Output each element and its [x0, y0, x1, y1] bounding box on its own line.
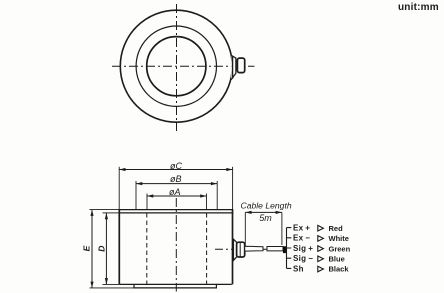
- svg-text:Cable Length: Cable Length: [241, 201, 292, 211]
- svg-text:øC: øC: [170, 161, 182, 171]
- svg-text:Green: Green: [329, 244, 351, 253]
- triangle Blue: [318, 256, 324, 262]
- dim øB line: [136, 182, 217, 185]
- dim E extension bottom: [90, 287, 135, 289]
- front connector nut: [237, 242, 245, 257]
- middle circle: [136, 26, 216, 106]
- cable length dim line: [245, 211, 282, 214]
- front view vertical centerline: [175, 198, 177, 292]
- front connector flange: [233, 239, 236, 260]
- triangle Green: [318, 246, 324, 252]
- svg-text:Sig −: Sig −: [293, 254, 313, 263]
- dim øA line: [147, 194, 207, 197]
- svg-text:unit:mm: unit:mm: [398, 2, 439, 13]
- svg-text:E: E: [81, 245, 91, 251]
- hidden edge left (dashed): [146, 213, 148, 284]
- dim øA extension lines: [147, 194, 207, 210]
- dim E line: [90, 210, 93, 288]
- front connector nut inner line: [239, 243, 241, 257]
- top view connector nut: [237, 58, 244, 73]
- dim øB extension lines: [136, 181, 217, 210]
- triangle White: [318, 236, 324, 242]
- dim D extension top: [103, 212, 119, 214]
- svg-text:øB: øB: [170, 174, 182, 184]
- svg-text:Blue: Blue: [329, 255, 345, 264]
- triangle Black: [318, 266, 324, 272]
- top view vertical centerline: [176, 4, 178, 131]
- body bottom line: [119, 283, 231, 285]
- svg-text:White: White: [329, 234, 349, 243]
- triangle Red: [318, 225, 324, 231]
- dim øC line: [119, 168, 232, 171]
- front view connector centerline: [215, 248, 288, 250]
- svg-text:D: D: [96, 246, 106, 252]
- svg-text:Ex +: Ex +: [293, 224, 310, 233]
- bottom foot step: [134, 284, 216, 288]
- svg-text:Ex −: Ex −: [293, 234, 310, 243]
- top view connector flange: [231, 56, 236, 80]
- dim D extension bottom: [103, 283, 120, 285]
- dim øC extension lines: [119, 167, 232, 210]
- svg-text:Red: Red: [329, 224, 344, 233]
- svg-text:5m: 5m: [259, 213, 272, 223]
- body right edge: [232, 210, 234, 285]
- wire bracket: [287, 228, 292, 269]
- dim E extension top: [90, 209, 119, 211]
- outer circle (body): [120, 10, 232, 122]
- cable segment 1: [245, 246, 263, 251]
- hidden edge right (dashed): [206, 213, 208, 284]
- svg-text:Black: Black: [329, 265, 350, 274]
- cable segment 2: [267, 247, 283, 251]
- body left edge: [118, 210, 120, 285]
- svg-text:øA: øA: [169, 187, 181, 197]
- cable length extension lines: [245, 212, 282, 245]
- body cap top line: [119, 209, 234, 211]
- top view horizontal centerline: [112, 65, 255, 67]
- svg-text:Sh: Sh: [293, 264, 304, 273]
- body top line: [119, 212, 234, 214]
- dim D line: [105, 213, 108, 285]
- inner circle: [147, 37, 206, 96]
- cable end block: [283, 246, 287, 253]
- svg-text:Sig +: Sig +: [293, 244, 313, 253]
